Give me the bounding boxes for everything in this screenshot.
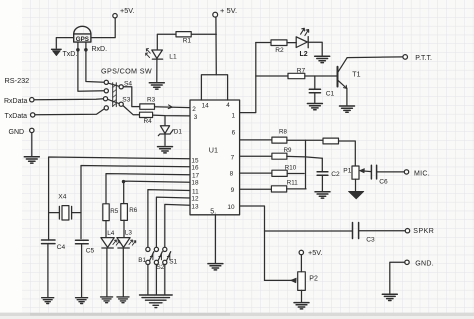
svg-text:C4: C4 bbox=[57, 244, 66, 251]
wire pin18 to R6 bbox=[124, 181, 190, 205]
+5V rail down to IC top box bbox=[215, 17, 217, 75]
svg-text:7: 7 bbox=[231, 154, 235, 161]
terminal +5V (GPS supply) bbox=[113, 14, 117, 18]
svg-text:RS-232: RS-232 bbox=[5, 76, 30, 85]
resistor R1 bbox=[176, 32, 191, 37]
svg-text:C3: C3 bbox=[366, 236, 375, 243]
svg-text:R9: R9 bbox=[284, 147, 292, 154]
svg-text:R8: R8 bbox=[279, 128, 287, 135]
svg-text:6: 6 bbox=[232, 129, 236, 136]
ground (GPS) bbox=[52, 48, 62, 50]
scan edge band bottom bbox=[0, 313, 474, 316]
svg-text:12: 12 bbox=[191, 195, 199, 202]
wire R10 to node bbox=[287, 173, 304, 175]
wire pin15 to X4/C4 bbox=[49, 157, 190, 240]
LED L3 bbox=[117, 238, 130, 248]
terminal TxData bbox=[31, 113, 35, 117]
terminal GND right bbox=[405, 260, 409, 264]
wire T1 collector to PTT bbox=[347, 56, 403, 59]
switch levers bbox=[108, 83, 120, 103]
wire GPS RxD pin bbox=[86, 42, 104, 82]
terminal +5V (P2) bbox=[299, 250, 303, 254]
ground (L2) bbox=[315, 56, 330, 62]
svg-text:X4: X4 bbox=[58, 193, 66, 200]
resistor (mic level) bbox=[323, 138, 339, 144]
svg-text:P1: P1 bbox=[343, 167, 351, 174]
svg-text:8: 8 bbox=[230, 170, 234, 177]
svg-text:R6: R6 bbox=[129, 207, 137, 214]
svg-text:GND.: GND. bbox=[415, 260, 434, 267]
resistor R9 bbox=[272, 153, 287, 159]
wire R4 to pin3 (through D1 node) bbox=[153, 114, 190, 117]
resistor R6 bbox=[121, 204, 128, 221]
wire pin13 to S1 bbox=[165, 204, 190, 247]
GPS module U2 bbox=[74, 26, 91, 34]
wire GND left down bbox=[31, 133, 33, 156]
svg-text:16: 16 bbox=[191, 164, 199, 171]
wire R1 to +5V rail bbox=[191, 33, 216, 35]
svg-text:10: 10 bbox=[227, 204, 235, 211]
terminal RxData bbox=[30, 98, 34, 102]
wire L1 to ground bbox=[156, 59, 158, 82]
LED L4 bbox=[101, 238, 114, 248]
svg-text:B1: B1 bbox=[138, 257, 146, 264]
svg-text:R4: R4 bbox=[144, 118, 153, 125]
wire pin6 to R8 bbox=[240, 139, 272, 141]
ground (L1) bbox=[149, 83, 164, 89]
svg-text:+5V.: +5V. bbox=[308, 248, 322, 257]
svg-text:GPS/COM SW: GPS/COM SW bbox=[101, 66, 152, 75]
ground (P2) bbox=[294, 303, 309, 309]
transistor T1 bbox=[337, 67, 339, 87]
svg-text:TxData: TxData bbox=[5, 113, 28, 120]
svg-text:S2: S2 bbox=[157, 264, 165, 271]
ground (T1 emitter) bbox=[340, 106, 355, 112]
terminal PTT bbox=[403, 55, 408, 60]
LED L2 bbox=[296, 37, 307, 48]
ground (C4) bbox=[42, 298, 54, 304]
junction dot RxD bbox=[84, 48, 88, 52]
resistor R4 bbox=[140, 112, 153, 117]
capacitor C2 bbox=[321, 158, 323, 171]
wire RxData to switch bbox=[34, 99, 103, 100]
svg-text:18: 18 bbox=[191, 179, 199, 186]
ground (C1) bbox=[307, 104, 322, 110]
wire pin16 to X4/C5 bbox=[81, 166, 190, 239]
ground (switch common) bbox=[140, 295, 173, 308]
svg-text:L4: L4 bbox=[107, 230, 115, 237]
svg-text:R5: R5 bbox=[110, 208, 118, 215]
capacitor C6 bbox=[371, 165, 376, 179]
wire pin1 up to R2/R7 node bbox=[240, 43, 256, 113]
wire R2 to L2 bbox=[287, 42, 296, 44]
svg-text:RxD.: RxD. bbox=[92, 46, 108, 53]
wire R9 to node and C2 bbox=[287, 156, 322, 158]
svg-text:D1: D1 bbox=[174, 129, 183, 136]
wire pin17 to R5 bbox=[106, 174, 190, 205]
svg-text:17: 17 bbox=[192, 172, 200, 179]
resistor R11 bbox=[271, 186, 286, 192]
capacitor C4 bbox=[42, 240, 56, 244]
svg-text:14: 14 bbox=[202, 102, 210, 109]
IC U1 body bbox=[190, 100, 240, 215]
wire to P2 wiper bbox=[265, 279, 292, 281]
wire R7 to T1 base bbox=[305, 75, 338, 77]
resistor R10 bbox=[272, 170, 287, 176]
junction dot TxD bbox=[76, 48, 80, 52]
svg-text:2: 2 bbox=[192, 106, 196, 113]
wire +5V to P2 bbox=[300, 255, 302, 272]
svg-text:15: 15 bbox=[191, 157, 199, 164]
terminal +5V (main) bbox=[213, 12, 218, 17]
resistor R8 bbox=[272, 137, 287, 143]
svg-text:R2: R2 bbox=[275, 47, 284, 54]
IC pin numbers bbox=[191, 102, 235, 215]
svg-text:C6: C6 bbox=[379, 179, 388, 186]
pushbutton S1 bbox=[163, 247, 167, 251]
wire pin9 to R11 bbox=[240, 188, 272, 190]
svg-text:R1: R1 bbox=[183, 38, 192, 45]
svg-text:P.T.T.: P.T.T. bbox=[415, 55, 432, 62]
wire GPS TxD pin bbox=[78, 42, 104, 91]
wire pin5 to ground bbox=[214, 215, 216, 263]
ground (D1) bbox=[158, 147, 173, 153]
wire S3 common to R4 bbox=[123, 106, 140, 115]
resistor R3 bbox=[140, 104, 155, 109]
ground (C2) bbox=[315, 192, 330, 198]
ground (C5) bbox=[76, 298, 88, 304]
svg-text:L2: L2 bbox=[300, 51, 308, 58]
LED L1 bbox=[152, 50, 163, 58]
wire L2 to ground bbox=[308, 42, 322, 55]
wire pin7 to R9 bbox=[240, 155, 272, 157]
svg-text:L1: L1 bbox=[169, 53, 177, 60]
terminal MIC bbox=[404, 170, 408, 174]
switch S3/S4 contacts bbox=[104, 80, 108, 84]
svg-text:4: 4 bbox=[226, 102, 230, 109]
pushbutton S2 bbox=[154, 247, 158, 251]
wire C6 to MIC bbox=[377, 171, 405, 173]
potentiometer P1 bbox=[352, 166, 359, 179]
terminal GND left bbox=[30, 128, 34, 132]
IC top supply box bbox=[201, 75, 227, 100]
svg-text:R11: R11 bbox=[287, 180, 298, 187]
capacitor C3 bbox=[353, 223, 359, 239]
wire R8 to mixer resistor bbox=[287, 139, 323, 141]
svg-text:S1: S1 bbox=[169, 258, 177, 265]
wire S4 common to R3 bbox=[123, 87, 140, 107]
zener D1 bbox=[164, 116, 166, 126]
svg-text:+5V.: +5V. bbox=[120, 6, 134, 15]
wire pin10 down bbox=[240, 206, 265, 280]
svg-text:L3: L3 bbox=[125, 229, 133, 236]
wire GND right bbox=[390, 262, 405, 293]
svg-text:R7: R7 bbox=[297, 67, 306, 74]
wire GPS to ground bbox=[56, 38, 73, 49]
svg-text:U1: U1 bbox=[209, 145, 218, 154]
svg-text:TxD.: TxD. bbox=[63, 51, 78, 58]
ground (P1, solid) bbox=[349, 191, 364, 199]
switch coupling bar bbox=[113, 83, 117, 107]
svg-text:P2: P2 bbox=[309, 275, 318, 282]
wire node to R7 bbox=[256, 75, 288, 77]
svg-text:GPS: GPS bbox=[76, 36, 89, 43]
svg-text:9: 9 bbox=[231, 187, 235, 194]
wire to C3 bbox=[265, 230, 353, 232]
wire node to R2 bbox=[256, 42, 271, 44]
wire R1 to L1 bbox=[157, 34, 176, 49]
ground (pin5) bbox=[208, 264, 223, 270]
ground (right) bbox=[382, 294, 397, 300]
capacitor C1 bbox=[314, 76, 316, 89]
svg-text:C5: C5 bbox=[86, 247, 95, 254]
wire C3 to SPKR bbox=[359, 230, 406, 232]
wire +5V to GPS box bbox=[91, 18, 115, 38]
node line (audio mix) bbox=[305, 140, 307, 189]
pushbutton B1 bbox=[146, 247, 150, 251]
svg-text:MIC.: MIC. bbox=[414, 171, 430, 178]
resistor R2 bbox=[271, 40, 287, 46]
wire pin12 to S2 bbox=[156, 197, 190, 247]
wire R11 to node bbox=[287, 188, 306, 190]
svg-text:13: 13 bbox=[191, 203, 199, 210]
svg-text:3: 3 bbox=[194, 114, 198, 121]
svg-text:S4: S4 bbox=[124, 80, 132, 87]
capacitor C5 bbox=[76, 240, 89, 244]
svg-text:GND: GND bbox=[9, 129, 25, 136]
svg-text:R3: R3 bbox=[147, 96, 156, 103]
svg-text:C1: C1 bbox=[326, 90, 335, 97]
svg-text:11: 11 bbox=[192, 188, 199, 195]
wire pin11 to B1 bbox=[148, 190, 190, 248]
ground (L4) bbox=[101, 297, 113, 303]
svg-text:SPKR: SPKR bbox=[413, 228, 434, 235]
svg-text:5.: 5. bbox=[210, 208, 216, 215]
svg-text:+ 5V.: + 5V. bbox=[220, 6, 237, 15]
wire P2 to ground bbox=[301, 290, 303, 301]
wire pin8 to R10 bbox=[240, 172, 272, 174]
resistor R7 bbox=[288, 73, 305, 78]
svg-text:R10: R10 bbox=[285, 164, 297, 171]
ground (RS-232 GND) bbox=[24, 157, 39, 163]
svg-text:RxData: RxData bbox=[4, 98, 27, 105]
ground (L3) bbox=[117, 297, 129, 303]
crystal X4 bbox=[49, 206, 81, 219]
wire to P1 top bbox=[339, 141, 356, 166]
resistor R5 bbox=[103, 204, 109, 221]
svg-text:C2: C2 bbox=[331, 171, 340, 178]
terminal SPKR bbox=[405, 229, 409, 233]
wire TxData to switch bbox=[35, 109, 104, 115]
svg-text:S3: S3 bbox=[122, 96, 130, 103]
svg-text:T1: T1 bbox=[352, 71, 360, 78]
svg-text:1: 1 bbox=[232, 112, 236, 119]
potentiometer P2 bbox=[298, 272, 306, 291]
wire R3 to pin2 bbox=[155, 106, 191, 109]
